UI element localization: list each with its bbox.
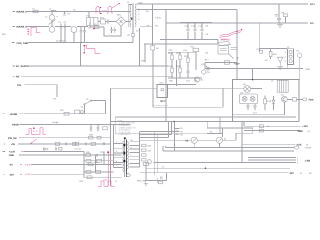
- transformer T1 core: [127, 1, 134, 28]
- svg-text:GND: GND: [298, 130, 304, 133]
- capacitor C2: [64, 21, 68, 30]
- wire vertical bus x237: [236, 10, 238, 80]
- wire band y118.6: [115, 116, 296, 118]
- wire fan to coil: [251, 88, 262, 90]
- node PS-ON rail: [12, 121, 130, 126]
- capacitor C19: [97, 125, 100, 132]
- transformer T2 core: [125, 140, 127, 177]
- wire ladder row3: [84, 163, 122, 165]
- wire T2 right pins: [130, 142, 140, 167]
- resistor R26: [86, 159, 102, 162]
- node TH1: [17, 84, 57, 87]
- meter M3: [217, 137, 228, 147]
- connector J2: [285, 46, 294, 65]
- svg-text:R1A: R1A: [168, 65, 173, 68]
- transformer T2 shield: [126, 174, 130, 177]
- wire box exit: [297, 98, 303, 100]
- fuse F1: [33, 7, 39, 12]
- wire ladder row5: [84, 176, 122, 178]
- resistor R11: [168, 52, 173, 78]
- wire gate line: [205, 62, 237, 64]
- wire primary left: [128, 5, 132, 28]
- node MAINS-L terminal: [13, 11, 28, 14]
- wire nested L1: [140, 122, 175, 132]
- capacitor CX1: [63, 12, 71, 16]
- wire bottom stub: [115, 178, 163, 184]
- svg-text:to logic: to logic: [52, 121, 59, 124]
- label T2 pins right: [130, 139, 133, 156]
- svg-text:J-SB: J-SB: [305, 160, 311, 163]
- wire pin stubs: [175, 122, 184, 151]
- wire Q4 out: [287, 98, 292, 100]
- wire standby out: [166, 146, 312, 150]
- resistor R28: [86, 171, 101, 174]
- thermistor box RT2: [157, 82, 168, 103]
- label T2 pins left: [116, 141, 118, 163]
- wire sb pin2: [248, 159, 299, 162]
- resistor R20: [292, 98, 296, 101]
- svg-text:+5V: +5V: [11, 143, 16, 146]
- waveform switch current (red): [81, 41, 101, 54]
- svg-text:IRFP 450: IRFP 450: [221, 39, 231, 42]
- diode D8: [272, 96, 275, 110]
- wire cap bank bottom rail: [160, 39, 218, 41]
- wire vertical bus x166: [165, 10, 167, 122]
- wire control bottom: [168, 78, 202, 85]
- svg-text:FAN: FAN: [309, 99, 314, 102]
- svg-text:AC_EARTH: AC_EARTH: [16, 65, 29, 68]
- fan controller box: [233, 80, 299, 122]
- svg-text:L5 2.2u: L5 2.2u: [75, 148, 83, 151]
- svg-text:C9 1u: C9 1u: [155, 17, 161, 20]
- wire T2 left pins: [114, 143, 123, 167]
- label bank note: [205, 25, 209, 36]
- resistor R18: [269, 49, 277, 59]
- resistor R33: [142, 154, 146, 156]
- svg-text:Rs: Rs: [210, 131, 213, 134]
- node -12V rail: [3, 173, 84, 176]
- wire aux out: [242, 143, 309, 146]
- wire T2 right bus: [139, 132, 141, 167]
- resistor R29: [87, 176, 92, 179]
- resistor R34: [142, 159, 146, 161]
- wire aux bus: [146, 165, 290, 169]
- capacitor C10: [184, 23, 189, 40]
- bridge diode BR2: [116, 14, 126, 27]
- capacitor C4: [83, 27, 86, 43]
- node junction dot: [252, 79, 254, 81]
- svg-text:+5VSB: +5VSB: [10, 113, 18, 116]
- transistor Q2 package: [206, 39, 238, 59]
- inductor L1: [49, 8, 56, 12]
- snubber RC cluster: [275, 4, 288, 23]
- capacitor C3: [80, 27, 83, 43]
- svg-text:R2A: R2A: [176, 65, 181, 68]
- resistor R12: [176, 52, 181, 78]
- resistor R24: [72, 142, 78, 145]
- capacitor C14: [256, 48, 262, 53]
- waveform standby (red): [98, 178, 115, 186]
- wire DC- rail: [166, 22, 308, 24]
- inductor L2a: [45, 12, 59, 21]
- resistor R4: [151, 4, 160, 50]
- svg-text:PW_OK: PW_OK: [8, 137, 17, 140]
- transformer T1 secondary winding: [135, 4, 136, 26]
- diode D9: [44, 148, 49, 151]
- capacitor C11: [191, 23, 196, 40]
- wire right drop: [241, 122, 243, 163]
- capacitor C21: [85, 143, 86, 146]
- wire ladder row4: [84, 171, 114, 173]
- wire opto top: [259, 49, 287, 69]
- waveform primary voltage (red): [96, 3, 120, 15]
- svg-text:-5V: -5V: [9, 164, 13, 167]
- red probe line: [107, 151, 109, 186]
- node -5V rail: [9, 163, 84, 166]
- svg-text:GND: GND: [9, 154, 15, 157]
- wire band y107: [153, 88, 223, 107]
- svg-text:-5.02V: -5.02V: [24, 163, 31, 166]
- red probe dot: [93, 28, 95, 30]
- resistor R32: [142, 144, 152, 152]
- wire gnd stub: [143, 162, 166, 180]
- capacitor C25: [56, 147, 63, 150]
- wire cap drops: [61, 31, 65, 43]
- wire FB line: [205, 68, 303, 70]
- capacitor C1: [59, 21, 63, 30]
- resistor R23: [55, 143, 60, 146]
- ground TL431: [277, 67, 283, 70]
- wire sb pin3: [154, 160, 311, 165]
- waveform ripple (red): [220, 29, 243, 41]
- transformer T2 dot marks: [124, 137, 126, 162]
- ground below DC-: [277, 23, 283, 27]
- node PWR-OK rail: [8, 134, 111, 140]
- node chassis ground terminal: [12, 42, 28, 45]
- ground symbol: [144, 180, 148, 186]
- wire earth drop: [80, 43, 82, 67]
- wire meter jog: [207, 122, 253, 141]
- node FB junction: [205, 65, 210, 70]
- capacitor C6: [110, 27, 112, 33]
- svg-text:+12V: +12V: [302, 125, 308, 128]
- svg-text:-11.9V: -11.9V: [24, 173, 31, 176]
- resistor R1: [94, 23, 99, 29]
- switch S1: [84, 98, 106, 114]
- wire fb drop: [252, 69, 254, 80]
- wire snub loop: [104, 27, 121, 36]
- transistor Q1: [194, 70, 210, 82]
- wire to EMI: [88, 12, 90, 18]
- wire gate drop: [204, 63, 206, 69]
- resistor R14: [191, 46, 199, 70]
- capacitor C18: [90, 125, 93, 132]
- node GND rail: [9, 154, 84, 157]
- wire L line: [26, 11, 130, 13]
- wire nested drops: [154, 132, 157, 175]
- svg-text:MAINS_L: MAINS_L: [17, 11, 28, 14]
- wire primary box left edge: [152, 50, 154, 107]
- resistor R30: [142, 144, 146, 146]
- node MAINS-N terminal: [13, 26, 28, 29]
- node PE terminal: [13, 75, 20, 78]
- wire +12V out: [244, 122, 308, 129]
- capacitor C16: [253, 104, 256, 110]
- resistor RT1: [100, 16, 106, 24]
- wire aux drop: [136, 28, 140, 66]
- wire cap bank top rail: [180, 22, 212, 24]
- node junction: [173, 121, 175, 123]
- wire control top: [168, 51, 196, 53]
- transformer T1 primary winding: [130, 5, 131, 27]
- capacitor C15: [246, 104, 249, 110]
- wire ladder row2: [84, 160, 114, 162]
- wire bridge bottom: [90, 22, 121, 28]
- wire N line: [26, 26, 88, 28]
- node AC earth terminal: [13, 65, 30, 68]
- svg-text:-12V: -12V: [289, 172, 294, 175]
- capacitor C13: [186, 70, 189, 78]
- IC U3 dual driver: [240, 91, 258, 103]
- wire x57 drop: [54, 85, 58, 101]
- wire nested L3: [140, 122, 169, 138]
- label cluster extras: [169, 49, 210, 83]
- wire earth rail: [28, 65, 169, 67]
- wire meter feed: [140, 139, 192, 141]
- resistor R16: [224, 61, 229, 64]
- node +3.3V rail: [3, 151, 84, 154]
- capacitor C5: [106, 20, 117, 24]
- wire EMI out: [98, 21, 101, 23]
- bridge rectifier BR1: [71, 25, 80, 42]
- node +5VSB rail: [3, 113, 106, 116]
- wire y44: [144, 40, 218, 45]
- svg-text:+15V: +15V: [234, 62, 240, 65]
- wire x145 drop: [141, 44, 146, 62]
- wire nested L2: [140, 122, 172, 135]
- wire T1 bottom lead: [132, 29, 134, 34]
- svg-text:5. HS 6.2 C/W: 5. HS 6.2 C/W: [119, 131, 131, 134]
- wire fan feed: [111, 87, 244, 89]
- transformer T3 coil: [271, 80, 288, 93]
- svg-text:CHS_GND: CHS_GND: [17, 42, 29, 45]
- svg-text:to chassis: to chassis: [56, 40, 65, 43]
- wire PE rail: [21, 75, 173, 77]
- svg-text:DC+: DC+: [310, 3, 315, 6]
- wire ladder verticals: [84, 125, 114, 178]
- resistor R27: [88, 161, 99, 166]
- wire ladder row1: [84, 154, 122, 156]
- capacitor C20: [65, 143, 66, 146]
- resistor R21: [60, 109, 69, 115]
- label sense: [176, 129, 212, 135]
- svg-text:Vc: Vc: [162, 165, 164, 168]
- wire between meters: [197, 139, 216, 141]
- shunt regulator U5 TL431: [265, 57, 283, 66]
- svg-text:NTC: NTC: [160, 100, 165, 103]
- wire sb pin1: [248, 156, 299, 159]
- EMI filter FL1: [87, 15, 99, 30]
- wire opto drop: [258, 23, 260, 52]
- label T1 pins: [138, 2, 162, 21]
- resistor R22: [103, 127, 107, 130]
- wire DC+ rail: [137, 3, 308, 5]
- svg-text:GND_SB: GND_SB: [137, 180, 146, 183]
- wire T1 aux out: [140, 25, 153, 27]
- svg-text:-12V: -12V: [9, 173, 14, 176]
- svg-text:TH1: TH1: [17, 84, 22, 87]
- wire band y122.7: [111, 121, 299, 123]
- wire bridge out: [126, 21, 130, 23]
- wire ground return: [28, 40, 133, 43]
- transformer T1 dot mark: [131, 18, 132, 20]
- node +15V: [234, 58, 240, 66]
- resistor R13: [184, 52, 189, 70]
- waveform inrush current (red): [28, 27, 41, 36]
- node +5V rail mid: [4, 143, 111, 146]
- capacitor C12: [198, 23, 203, 40]
- node sense pin: [297, 50, 302, 80]
- regulator U4: [75, 106, 85, 114]
- resistor R19: [264, 95, 272, 110]
- svg-text:DC-: DC-: [310, 22, 314, 25]
- svg-text:+5VSB: +5VSB: [304, 147, 311, 150]
- resistor R25: [86, 151, 105, 157]
- transformer T2 right winding: [127, 142, 128, 169]
- transformer T2 left winding: [123, 141, 124, 172]
- waveform pwr-ok timing (red): [26, 127, 47, 144]
- legend note text: [115, 117, 220, 136]
- wire secondary mid rail: [137, 9, 237, 11]
- wire -12V bus: [140, 172, 312, 175]
- wire big box left edge: [110, 88, 112, 186]
- meter M2: [185, 137, 197, 147]
- wire box bottom bus: [233, 102, 284, 115]
- svg-text:MAINS_N: MAINS_N: [17, 26, 28, 29]
- wire aux rail2: [163, 146, 294, 151]
- svg-text:PSON: PSON: [12, 124, 19, 127]
- resistor R2: [127, 34, 134, 43]
- svg-text:PE: PE: [16, 75, 20, 78]
- capacitor C23: [161, 173, 167, 181]
- fan M1: [243, 83, 251, 92]
- capacitor C7: [114, 27, 116, 33]
- transistor Q5: [147, 160, 151, 164]
- transistor Q4: [281, 93, 287, 102]
- connector fan out: [303, 98, 314, 102]
- wire +12V ret: [244, 129, 310, 133]
- inductor L2b: [49, 20, 56, 33]
